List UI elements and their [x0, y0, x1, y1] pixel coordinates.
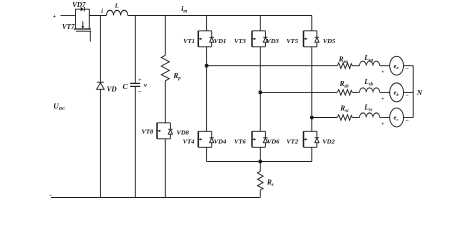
svg-text:VD7: VD7: [72, 1, 86, 9]
svg-text:VT7: VT7: [62, 23, 75, 31]
wire phase b line: [260, 91, 337, 93]
svg-text:i: i: [101, 9, 103, 15]
label R_s: [266, 178, 274, 188]
label - (emf b): [405, 93, 409, 99]
EMF source e_a: [390, 56, 404, 75]
svg-text:ec: ec: [394, 115, 399, 122]
svg-text:eb: eb: [394, 90, 399, 97]
svg-text:−: −: [405, 118, 409, 124]
label VD1: [214, 38, 226, 45]
transistor VT6 with diode VD6: [252, 131, 268, 147]
node phase c tap: [310, 116, 314, 120]
svg-text:VD2: VD2: [322, 138, 335, 145]
wire phase b R to L: [352, 91, 359, 93]
wire leg2 bottom lead: [259, 147, 261, 161]
label C: [123, 82, 129, 91]
svg-text:VD1: VD1: [214, 38, 226, 45]
wire phase c R to L: [352, 117, 359, 119]
wire phase c EMF to N bus: [404, 117, 414, 119]
label L_sb: [363, 78, 373, 88]
svg-text:−: −: [405, 93, 409, 99]
label i_m (DC link current): [181, 4, 187, 15]
wire bottom rail: [51, 197, 260, 199]
wire leg3 middle: [311, 47, 313, 132]
node phase a tap: [205, 64, 209, 68]
transistor VT8 with diode VD8: [157, 123, 173, 139]
label L_sa: [363, 54, 373, 64]
wire phase b EMF to N bus: [404, 91, 414, 93]
svg-text:v: v: [144, 82, 147, 89]
label L_sc: [363, 103, 373, 113]
svg-text:Rp: Rp: [173, 72, 182, 82]
wire leg1 bottom lead: [206, 147, 208, 161]
svg-text:L: L: [114, 3, 119, 10]
svg-text:VD3: VD3: [266, 38, 279, 45]
label U_DC: [53, 101, 66, 111]
node N label: [416, 89, 423, 97]
label VD3: [266, 38, 279, 45]
svg-text:+: +: [53, 14, 57, 20]
svg-text:N: N: [416, 89, 423, 97]
svg-text:VD8: VD8: [177, 130, 190, 137]
svg-text:+: +: [138, 78, 141, 84]
resistor R_s: [258, 171, 264, 190]
label VT2: [286, 138, 298, 145]
capacitor C: [130, 83, 140, 86]
label VD6: [267, 138, 280, 145]
label R_sb: [339, 80, 350, 90]
wire node to R_s: [259, 162, 261, 172]
inductor L_sc: [360, 113, 380, 118]
label VD7: [72, 1, 86, 9]
label - (emf a): [405, 67, 409, 73]
svg-text:VD: VD: [107, 85, 118, 93]
label L: [114, 3, 119, 10]
wire leg1 top lead: [206, 16, 208, 31]
wire VD branch bottom: [99, 89, 101, 197]
svg-text:Rs: Rs: [266, 178, 274, 188]
inductor L_sa: [360, 61, 380, 66]
label VD5: [323, 38, 336, 45]
wire R_p to VT8: [164, 81, 166, 123]
label VT3: [234, 38, 246, 45]
label - (emf c): [405, 118, 409, 124]
node phase b tap: [258, 91, 262, 95]
svg-text:VT5: VT5: [286, 38, 298, 45]
inductor L: [106, 10, 127, 15]
wire N bus (neutral): [412, 66, 414, 118]
svg-text:VD4: VD4: [214, 138, 227, 145]
wire VD branch top: [99, 16, 101, 83]
svg-text:−: −: [405, 67, 409, 73]
transistor VT2 with diode VD2: [304, 131, 320, 147]
wire phase b L to EMF: [380, 91, 390, 93]
node - terminal (DC input negative): [49, 193, 53, 199]
label R_p: [173, 72, 182, 82]
resistor R_sb: [337, 90, 352, 96]
label VT5: [286, 38, 298, 45]
resistor R_sa: [337, 63, 352, 69]
wire capacitor branch top: [134, 16, 136, 84]
label + (emf b): [381, 96, 384, 102]
label + (emf c): [381, 122, 384, 128]
wire VT7 to inductor L, node i: [89, 15, 106, 17]
inductor L_sb: [360, 88, 380, 93]
label VT4: [183, 138, 195, 145]
svg-text:−: −: [49, 193, 53, 199]
svg-text:Lsb: Lsb: [363, 78, 373, 88]
EMF source e_b: [390, 83, 404, 102]
wire leg3 top lead: [311, 16, 313, 31]
wire top rail from + to VT7: [61, 15, 76, 17]
wire phase a L to EMF: [380, 65, 390, 67]
svg-text:+: +: [381, 70, 384, 76]
transistor VT1 with diode VD1: [198, 31, 214, 47]
label VT7: [62, 23, 75, 31]
transistor VT4 with diode VD4: [198, 131, 214, 147]
svg-text:VT8: VT8: [142, 129, 154, 136]
diode VD (freewheel): [97, 82, 105, 89]
label VT6: [234, 138, 246, 145]
wire phase a line: [207, 65, 337, 67]
diode VD7 (anti-parallel over VT7): [76, 7, 90, 16]
svg-text:C: C: [123, 82, 129, 91]
svg-text:VT4: VT4: [183, 138, 195, 145]
transistor VT3 with diode VD3: [252, 31, 268, 47]
label VT1: [183, 38, 195, 45]
label VT8: [142, 129, 154, 136]
node junction R_s: [258, 160, 262, 164]
label - (cap polarity): [138, 89, 142, 96]
wire bottom node line (sources common): [207, 161, 312, 163]
wire leg2 middle: [259, 47, 261, 132]
svg-text:+: +: [381, 96, 384, 102]
svg-text:VT6: VT6: [234, 138, 246, 145]
wire capacitor branch bottom: [134, 86, 136, 197]
svg-text:VT2: VT2: [286, 138, 298, 145]
svg-text:−: −: [138, 89, 142, 96]
resistor R_p: [161, 55, 169, 81]
wire leg2 top lead: [259, 16, 261, 31]
label R_sa: [338, 56, 349, 66]
svg-text:VT1: VT1: [183, 38, 195, 45]
svg-text:im: im: [181, 4, 187, 15]
label VD4: [214, 138, 227, 145]
label i (inductor current): [101, 9, 103, 15]
wire R_s to bottom rail: [259, 190, 261, 198]
svg-text:+: +: [381, 122, 384, 128]
svg-text:VD6: VD6: [267, 138, 280, 145]
transistor VT7: [74, 16, 91, 42]
label VD2: [322, 138, 335, 145]
label VD: [107, 85, 118, 93]
resistor R_sc: [337, 115, 352, 121]
svg-text:Lsc: Lsc: [363, 103, 373, 113]
wire top rail from L to leg 3: [128, 15, 312, 17]
svg-text:VT3: VT3: [234, 38, 246, 45]
svg-text:Rsb: Rsb: [339, 80, 350, 90]
label + (cap polarity): [138, 78, 141, 84]
svg-text:VD5: VD5: [323, 38, 336, 45]
wire R_p branch top: [164, 16, 166, 56]
wire phase c L to EMF: [380, 117, 390, 119]
wire phase a R to L: [352, 65, 359, 67]
wire leg3 bottom lead: [311, 147, 313, 161]
label + (emf a): [381, 70, 384, 76]
transistor VT5 with diode VD5: [304, 31, 320, 47]
svg-text:ea: ea: [394, 63, 399, 70]
label VD8: [177, 130, 190, 137]
wire leg1 middle: [206, 47, 208, 132]
wire VT8 to bottom rail: [164, 139, 166, 198]
svg-text:UDC: UDC: [53, 101, 66, 111]
svg-text:Rsc: Rsc: [339, 105, 350, 115]
node + terminal (DC input positive): [53, 14, 57, 20]
label v (cap voltage): [144, 82, 147, 89]
wire phase a EMF to N bus: [404, 65, 414, 67]
wire phase c line: [312, 117, 337, 119]
EMF source e_c: [390, 108, 404, 127]
label R_sc: [339, 105, 350, 115]
